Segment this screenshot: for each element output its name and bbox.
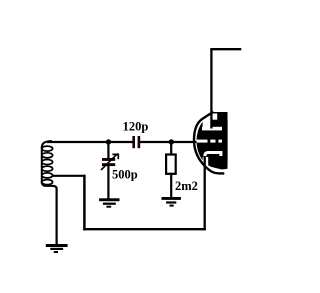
capacitor C2 500p variable, plates (102, 158, 115, 161)
cathode lead notch (203, 157, 209, 166)
inductor L1 tuning coil (42, 141, 57, 244)
ground (below R1) (162, 197, 181, 200)
wire: 120p right plate to tube grid (140, 141, 197, 143)
node A: junction dot (coil top / 500p tap) (106, 139, 111, 144)
wire: coil tap to cathode return (horizontal) (52, 175, 86, 177)
svg-text:500p: 500p (112, 168, 138, 182)
anode bar (white) (202, 127, 222, 131)
tube envelope outline (194, 112, 224, 174)
variable arrow on C2 (101, 154, 118, 170)
svg-text:2m2: 2m2 (175, 179, 198, 193)
tube V1 (triode) (194, 112, 236, 174)
ground (below L1) (46, 244, 68, 247)
node B: junction dot (120p / 2m2 / grid) (169, 139, 174, 144)
wire: bottom horizontal cathode return (83, 228, 206, 230)
wire: coil top to 120p left plate (grid line) (47, 141, 133, 143)
ground (below C2) (99, 198, 119, 201)
cathode hook (white) (205, 153, 221, 161)
cathode lead (204, 156, 206, 230)
wire: anode top horizontal (210, 48, 241, 50)
wire: junction A down to C2 (107, 142, 109, 158)
wire: junction B down to R1 (170, 142, 172, 155)
grid dashes (white) (197, 140, 208, 143)
svg-text:120p: 120p (123, 120, 149, 134)
wire: R1 to ground (170, 175, 172, 198)
capacitor C1 120p plates (132, 136, 135, 148)
wire: left vertical of cathode return (83, 175, 86, 231)
anode lead (210, 49, 212, 129)
wire: C2 to ground (107, 166, 109, 199)
resistor R1 2m2 body (166, 155, 176, 174)
